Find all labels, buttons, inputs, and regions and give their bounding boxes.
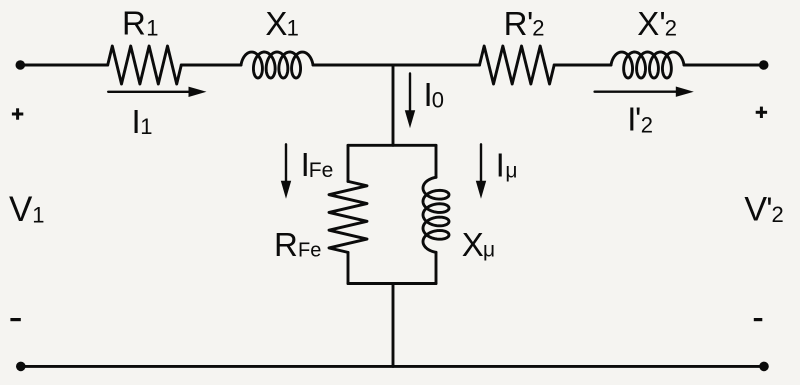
svg-text:μ: μ bbox=[505, 160, 517, 183]
svg-text:2: 2 bbox=[532, 16, 544, 41]
svg-text:X: X bbox=[637, 5, 659, 42]
svg-text:R: R bbox=[504, 5, 528, 42]
svg-text:Fe: Fe bbox=[309, 159, 334, 182]
svg-text:1: 1 bbox=[32, 202, 44, 227]
svg-text:2: 2 bbox=[772, 202, 784, 227]
svg-text:1: 1 bbox=[287, 16, 299, 41]
svg-text:V: V bbox=[744, 191, 767, 229]
svg-text:μ: μ bbox=[483, 238, 495, 261]
svg-text:R: R bbox=[274, 226, 298, 263]
svg-text:X: X bbox=[265, 5, 287, 42]
svg-text:I: I bbox=[496, 147, 505, 184]
svg-text:X: X bbox=[462, 226, 484, 263]
svg-text:1: 1 bbox=[146, 16, 158, 41]
svg-text:2: 2 bbox=[641, 113, 653, 138]
svg-text:0: 0 bbox=[432, 88, 444, 113]
svg-text:1: 1 bbox=[140, 114, 152, 139]
svg-text:V: V bbox=[9, 190, 33, 229]
svg-text:Fe: Fe bbox=[298, 239, 321, 261]
svg-text:R: R bbox=[122, 4, 146, 41]
svg-text:2: 2 bbox=[665, 16, 677, 41]
